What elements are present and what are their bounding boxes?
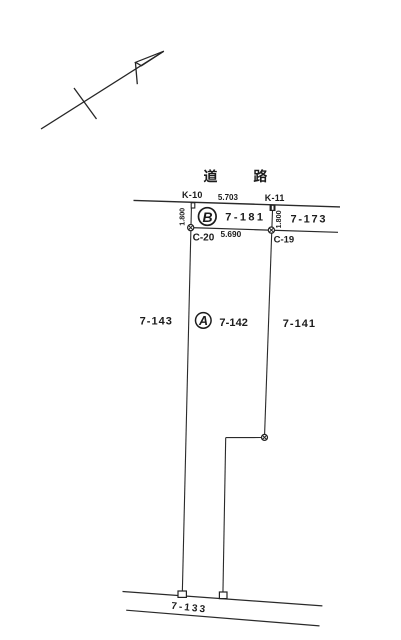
label 路 (road) (254, 169, 267, 182)
svg-text:5.690: 5.690 (221, 229, 242, 239)
svg-text:7-133: 7-133 (171, 601, 208, 616)
bottom boundary line upper (123, 592, 323, 606)
survey marker K-10 (191, 203, 195, 208)
parcel boundary right vertical (265, 211, 273, 435)
point label A circle (196, 313, 212, 329)
boundary stone square right (219, 592, 227, 599)
north arrow head (136, 51, 164, 66)
north arrow flag staff (135, 62, 137, 84)
svg-text:B: B (203, 209, 213, 225)
svg-text:C-19: C-19 (274, 235, 295, 246)
svg-text:7-143: 7-143 (140, 316, 173, 328)
svg-text:A: A (198, 314, 208, 328)
svg-text:K-11: K-11 (265, 193, 285, 203)
boundary point circle-x C-19 (268, 227, 274, 233)
svg-text:7-141: 7-141 (283, 318, 316, 330)
road top edge line (134, 200, 341, 207)
boundary step horizontal (226, 437, 262, 439)
boundary middle vertical (223, 438, 226, 596)
point label B circle (199, 208, 217, 226)
svg-text:1.800: 1.800 (178, 208, 187, 226)
parcel boundary left vertical (182, 208, 191, 594)
svg-text:1.800: 1.800 (274, 210, 283, 228)
road lower edge line (191, 228, 338, 233)
svg-text:C-20: C-20 (193, 232, 215, 243)
svg-text:K-10: K-10 (182, 190, 203, 200)
svg-text:7-142: 7-142 (219, 317, 248, 329)
boundary point circle-x at step (262, 434, 268, 440)
north arrow cross tick (74, 88, 97, 119)
north arrow main line (41, 51, 164, 129)
svg-text:7-181: 7-181 (225, 211, 265, 223)
boundary stone square left (178, 591, 186, 597)
bottom boundary line lower (126, 610, 319, 626)
svg-text:7-173: 7-173 (291, 213, 328, 225)
label 道 (road) (204, 169, 217, 182)
survey marker K-11 (270, 205, 276, 210)
svg-text:5.703: 5.703 (218, 193, 239, 202)
boundary point circle-x C-20 (188, 225, 194, 231)
